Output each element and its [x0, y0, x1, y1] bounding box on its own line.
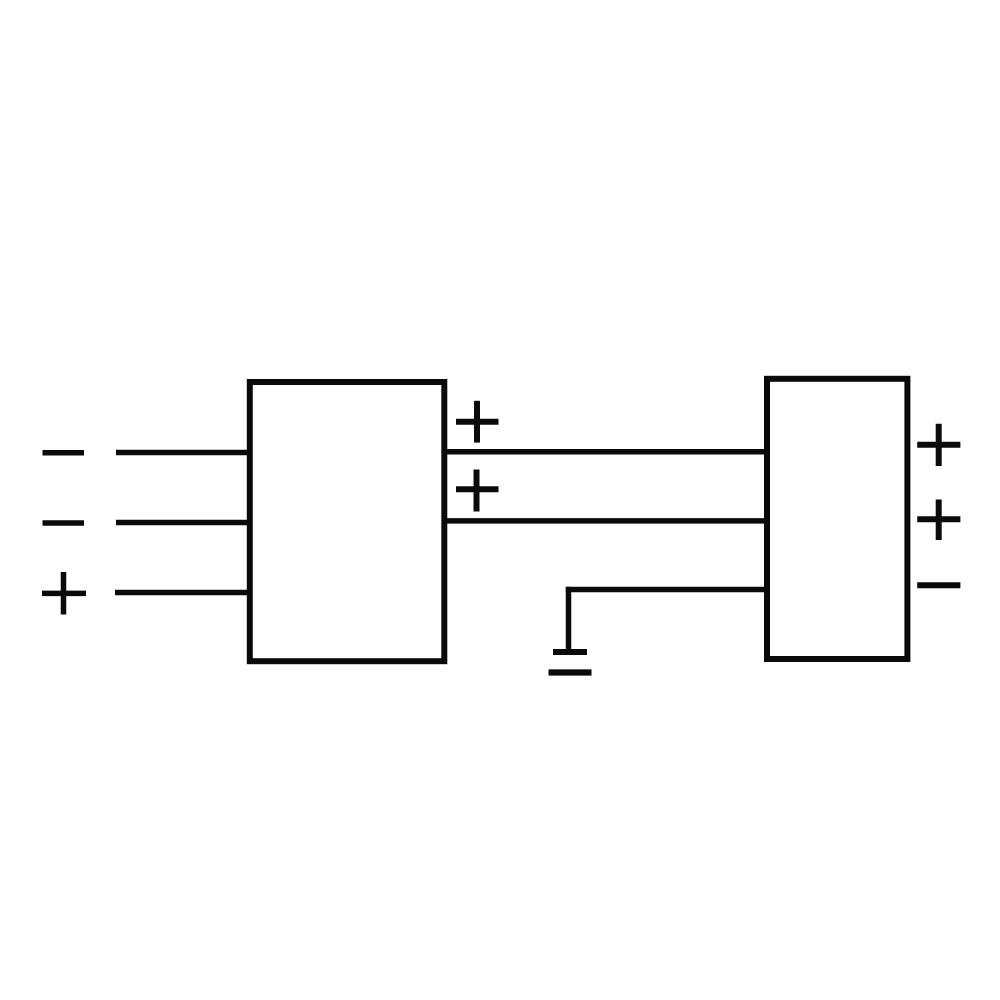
wire M1 (upper wire between modules): [444, 449, 767, 455]
label minus (left input 2): [43, 520, 85, 526]
label plus (U2 output 1): [917, 424, 960, 466]
wire M2 (lower wire between modules): [444, 518, 767, 524]
box U1 (left module): [250, 382, 444, 661]
wire L3 (bottom left input wire): [115, 590, 250, 596]
ground: [549, 652, 592, 673]
label minus (left input 1): [43, 450, 85, 456]
box U2 (right module): [767, 379, 907, 659]
wire L2 (middle left input wire): [116, 520, 250, 526]
label plus (left input 3): [42, 572, 86, 615]
wire GND horizontal segment: [566, 587, 767, 593]
label plus (U1 output, upper wire): [456, 401, 499, 443]
label minus (U2 output 3): [917, 582, 960, 588]
wire GND vertical segment: [566, 587, 572, 652]
label plus (U2 output 2): [917, 500, 960, 541]
wire L1 (top left input wire): [116, 450, 250, 456]
label plus (U1 output, lower wire): [456, 470, 499, 512]
